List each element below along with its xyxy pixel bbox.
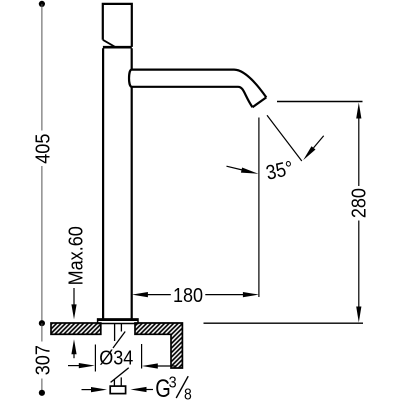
dim O34 left arrow bbox=[68, 365, 80, 367]
dim 280 bottom arrow bbox=[356, 307, 361, 323]
G3/8 left arrow bbox=[82, 389, 93, 391]
dim 307: bottom dot bbox=[39, 390, 45, 396]
svg-text:8: 8 bbox=[184, 387, 192, 400]
dim 180 line bbox=[147, 294, 243, 296]
faucet handle bbox=[103, 4, 132, 47]
svg-text:307: 307 bbox=[32, 345, 54, 375]
faucet body bbox=[103, 48, 132, 318]
dim 405: top dot bbox=[39, 1, 45, 7]
countertop right L-section bbox=[135, 323, 182, 368]
dim 280 top arrow bbox=[356, 103, 361, 119]
G3/8 right arrow bbox=[146, 389, 154, 391]
35 deg left arrow bbox=[227, 166, 243, 170]
supply hose bbox=[111, 324, 129, 386]
35 deg right arrow bbox=[314, 136, 324, 148]
svg-text:3: 3 bbox=[169, 374, 177, 392]
dim 180 right arrow bbox=[243, 292, 259, 297]
spout tip extension line bbox=[258, 118, 260, 298]
svg-text:Ø34: Ø34 bbox=[99, 348, 133, 370]
dim 307: line bbox=[41, 323, 43, 393]
dim 405: line bbox=[41, 4, 43, 323]
35 deg flow line bbox=[267, 115, 302, 161]
countertop left section bbox=[51, 323, 101, 334]
base flange bbox=[98, 319, 139, 324]
svg-text:180: 180 bbox=[173, 285, 203, 307]
spout bbox=[129, 70, 266, 108]
dim 180 left arrow bbox=[132, 292, 148, 297]
dim 280 line bbox=[358, 119, 360, 307]
dim O34 right arrow bbox=[157, 365, 177, 367]
top level line bbox=[277, 101, 363, 103]
G3/8 nut bbox=[110, 386, 125, 394]
svg-text:280: 280 bbox=[349, 188, 371, 218]
dim O34 left extension line bbox=[94, 345, 96, 372]
dim Max.60 top arrow bbox=[73, 288, 75, 306]
countertop level line right bbox=[204, 322, 364, 324]
dim 405: mid dot bbox=[39, 320, 45, 326]
svg-text:405: 405 bbox=[33, 134, 55, 164]
svg-text:Max.60: Max.60 bbox=[66, 226, 88, 285]
G3/8 text bbox=[155, 374, 192, 404]
dim O34 right extension line bbox=[141, 344, 143, 369]
dim Max.60 bottom arrow bbox=[73, 354, 75, 358]
